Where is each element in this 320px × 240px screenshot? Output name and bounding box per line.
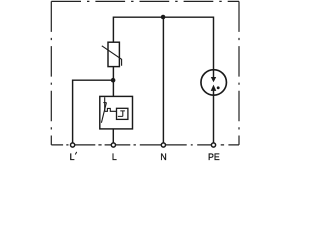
- enclosure boundary left: [50, 1, 52, 145]
- svg-text:N: N: [160, 152, 166, 162]
- trigger unit small box: [117, 108, 128, 119]
- varistor MOV body: [108, 42, 119, 66]
- svg-text:L: L: [70, 152, 75, 162]
- wire: varistor to junction and into trigger box: [112, 67, 114, 97]
- triggered spark gap box outline: [100, 96, 133, 128]
- enclosure boundary top: [51, 0, 239, 2]
- wire: trigger box to L terminal: [112, 129, 114, 145]
- spark gap electrode line: [104, 97, 106, 111]
- terminal L': [71, 143, 75, 147]
- terminal N: [161, 143, 165, 147]
- wire: top rail from L branch to PE branch: [113, 17, 213, 69]
- trigger pulse line: [105, 108, 117, 111]
- wire: junction to L' terminal: [73, 80, 114, 145]
- wire: PE branch through spark gap to PE terminal: [213, 70, 215, 146]
- spark gap lower arrow: [211, 85, 217, 91]
- spark gap slanted electrode: [101, 103, 106, 123]
- svg-text:L: L: [112, 152, 117, 162]
- spark gap (GDT) circle U2: [201, 70, 227, 96]
- enclosure boundary bottom (dash-dot through terminals): [51, 144, 239, 146]
- terminal PE: [211, 143, 215, 147]
- varistor diagonal with tail: [102, 46, 122, 66]
- junction dot node N tap: [161, 15, 166, 20]
- step waveform glyph in trigger unit: [118, 111, 125, 117]
- spark gap trigger dot: [217, 86, 220, 89]
- spark gap upper arrow: [211, 77, 216, 82]
- wire: N branch vertical: [162, 17, 164, 145]
- enclosure boundary right: [238, 1, 240, 145]
- spark gap electrode tick: [103, 102, 106, 104]
- junction dot varistor/L'/L node: [111, 78, 116, 83]
- svg-text:PE: PE: [208, 152, 220, 162]
- terminal L: [111, 143, 115, 147]
